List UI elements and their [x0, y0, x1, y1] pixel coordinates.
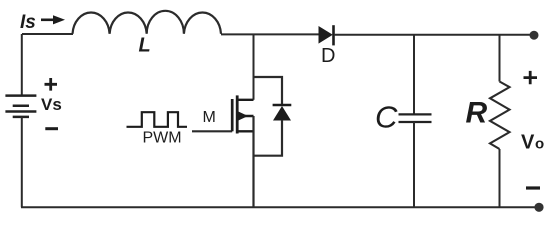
wire: MOSFET source to bottom rail — [252, 116, 254, 207]
wire: inductor to diode anode — [221, 33, 319, 35]
svg-text:R: R — [466, 97, 488, 130]
diode D — [319, 25, 334, 45]
svg-text:C: C — [375, 100, 398, 135]
wire: left rail upper (to battery +) — [21, 34, 23, 96]
battery Vs — [5, 96, 36, 117]
label Vo — [521, 131, 544, 153]
inductor L — [73, 11, 222, 34]
node: negative output terminal — [534, 203, 543, 212]
label M — [203, 109, 216, 126]
PWM waveform symbol — [127, 112, 188, 127]
label Is — [20, 12, 36, 33]
svg-text:D: D — [321, 45, 335, 67]
wire: gate lead — [192, 130, 232, 132]
current arrow Is — [41, 15, 65, 24]
resistor R — [490, 82, 510, 150]
transistor M (MOSFET) — [232, 95, 253, 133]
svg-text:Vs: Vs — [41, 95, 62, 114]
body diode of MOSFET — [273, 105, 292, 121]
wire: body diode branch top — [254, 77, 283, 104]
label - (battery negative) — [45, 127, 58, 130]
label PWM — [143, 129, 182, 146]
wire: top rail to resistor — [499, 34, 501, 82]
label D — [321, 45, 335, 67]
svg-text:M: M — [203, 109, 216, 126]
svg-text:V: V — [521, 131, 535, 153]
wire: switch node to MOSFET drain — [253, 34, 255, 99]
svg-text:Is: Is — [20, 12, 36, 33]
label Vs — [41, 95, 62, 114]
wire: bottom rail — [21, 206, 537, 208]
wire: top rail, source corner to inductor — [22, 33, 73, 35]
label L — [139, 35, 151, 57]
svg-text:L: L — [139, 35, 151, 57]
wire: diode cathode to positive output terminal — [334, 34, 532, 36]
label C — [375, 100, 398, 135]
svg-text:o: o — [535, 135, 544, 152]
node: positive output terminal — [530, 31, 539, 40]
svg-text:PWM: PWM — [143, 129, 182, 146]
label R — [466, 97, 488, 130]
wire: top rail to capacitor — [413, 34, 415, 114]
wire: capacitor to bottom rail — [413, 122, 415, 207]
label + (battery positive) — [45, 78, 58, 91]
label - (output negative) — [526, 186, 540, 189]
label + (output positive) — [524, 71, 538, 84]
capacitor C — [399, 114, 432, 122]
wire: resistor to bottom rail — [499, 149, 501, 207]
wire: body diode branch bottom — [254, 120, 283, 156]
wire: left rail lower (battery - to bottom rail) — [21, 117, 23, 207]
